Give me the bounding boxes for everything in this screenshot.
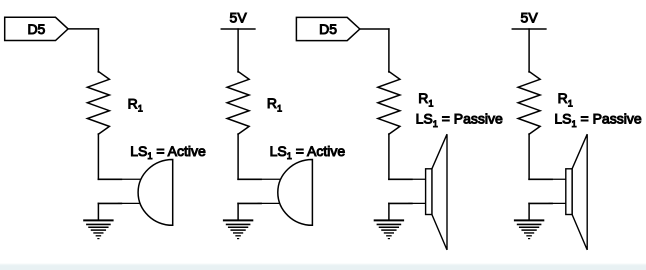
svg-text:R1: R1 (558, 90, 573, 108)
svg-text:R1: R1 (267, 95, 282, 113)
svg-text:LS1 = Active: LS1 = Active (130, 143, 206, 161)
svg-text:R1: R1 (128, 95, 143, 113)
svg-text:LS1 = Active: LS1 = Active (270, 143, 346, 161)
svg-text:D5: D5 (27, 21, 45, 37)
svg-text:5V: 5V (230, 10, 248, 26)
svg-text:R1: R1 (418, 90, 433, 108)
svg-text:5V: 5V (521, 10, 539, 26)
svg-text:LS1 = Passive: LS1 = Passive (554, 111, 641, 129)
svg-text:LS1 = Passive: LS1 = Passive (416, 111, 503, 129)
svg-text:D5: D5 (319, 21, 337, 37)
